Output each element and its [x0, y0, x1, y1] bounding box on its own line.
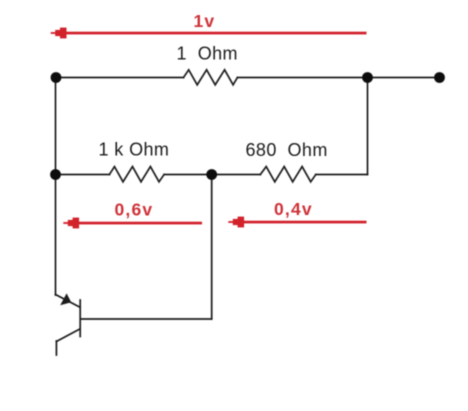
transistor arrow head: [60, 293, 71, 305]
wire: top rail left segment: [56, 77, 184, 79]
node B: terminal right: [434, 72, 445, 83]
svg-text:1 Ohm: 1 Ohm: [177, 44, 238, 64]
svg-text:0,4v: 0,4v: [274, 199, 313, 219]
wire: left vertical lower (to transistor emitter arrow lead): [55, 175, 57, 296]
svg-text:0,6v: 0,6v: [115, 200, 154, 220]
wire: emitter tail vertical: [55, 341, 57, 355]
wire: right vertical from node A: [367, 78, 369, 175]
resistor R3 680 Ohm: [260, 167, 316, 182]
transistor Q1 upper lead (with arrow): [56, 295, 80, 308]
wire: middle rail segment 1: [56, 174, 110, 176]
arrow: 0,6v measurement: [63, 218, 202, 229]
node: left middle: [50, 169, 61, 180]
wire: base wire horizontal: [81, 318, 212, 320]
svg-text:1v: 1v: [194, 11, 216, 31]
arrow: 0,4v measurement: [228, 217, 366, 228]
wire: top rail right segment: [237, 77, 439, 79]
wire: middle vertical from node C down: [211, 175, 213, 320]
node A: right top: [362, 72, 373, 83]
node: left top: [51, 72, 62, 83]
wire: middle rail segment 3: [316, 174, 368, 176]
transistor Q1 base bar: [79, 300, 81, 337]
wire: left vertical (node to node): [55, 78, 57, 175]
resistor R2 1 k Ohm: [109, 167, 164, 182]
resistor R1 1 Ohm: [184, 70, 238, 85]
svg-text:1 k Ohm: 1 k Ohm: [99, 140, 170, 160]
arrow: 1v measurement: [51, 28, 367, 39]
svg-text:680 Ohm: 680 Ohm: [246, 140, 328, 160]
wire: middle rail segment 2: [164, 174, 260, 176]
node C: middle: [206, 169, 217, 180]
transistor Q1 lower lead: [56, 329, 79, 342]
